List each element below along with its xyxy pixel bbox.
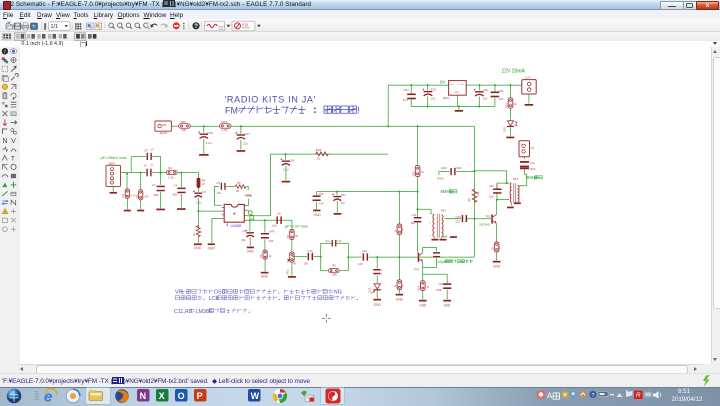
op-amp U1 LM386 [224, 205, 244, 223]
resistor R51 [510, 85, 512, 98]
svg-text:μF=25mV max: μF=25mV max [101, 155, 127, 160]
voltage regulator U2 REG [449, 81, 467, 96]
svg-text:GND: GND [261, 275, 269, 279]
svg-text:R5: R5 [259, 254, 263, 258]
ground below JP1 [528, 94, 530, 104]
ground below R13 [493, 261, 501, 263]
LED D51 [508, 121, 514, 126]
svg-text:C21: C21 [362, 249, 368, 253]
wire 9V riser [387, 85, 389, 126]
svg-text:2SC945: 2SC945 [479, 223, 490, 227]
resistor R55 [179, 124, 191, 128]
wire C9 to R7 riser [291, 220, 293, 228]
svg-text:22: 22 [317, 157, 321, 161]
node junction on varactor line [398, 256, 400, 258]
svg-text:A: A [547, 392, 553, 401]
svg-text:10v: 10v [431, 97, 436, 101]
svg-text:TR1: TR1 [414, 268, 420, 272]
svg-text:104: 104 [319, 202, 324, 206]
svg-text:C20: C20 [489, 184, 494, 188]
svg-text:LCR: LCR [209, 296, 220, 302]
svg-text:ECM: ECM [160, 131, 167, 135]
note text line2 [175, 296, 179, 300]
taskbar [0, 387, 720, 406]
svg-text:C11,R8: C11,R8 [174, 309, 192, 315]
transistor Q2 TR2 [491, 215, 493, 224]
connector JX antenna [523, 157, 525, 159]
svg-text:R54: R54 [221, 120, 227, 124]
wire LM386 pin7 bypass stub [245, 199, 248, 206]
svg-text:R1: R1 [121, 194, 125, 198]
svg-text:NG: NG [334, 290, 342, 296]
capacitor C4 [160, 173, 162, 185]
svg-text:C6: C6 [216, 181, 220, 185]
svg-text:GND: GND [194, 246, 202, 250]
svg-text:4: 4 [446, 216, 448, 218]
wire LM386 pin4 to ground [212, 219, 222, 244]
svg-text:GND: GND [396, 297, 404, 301]
svg-text:10k: 10k [332, 273, 337, 277]
ground below C56 [282, 181, 291, 183]
svg-text:104F: 104F [268, 229, 274, 233]
svg-text:C60F: C60F [455, 166, 462, 170]
ground below R12 [396, 294, 404, 296]
resistor R52 [415, 166, 420, 177]
svg-text:R9: R9 [467, 198, 471, 202]
svg-text:106: 106 [358, 262, 363, 266]
wire C23 to TR2 base [467, 218, 491, 220]
capacitor C54 [410, 85, 412, 93]
svg-text:R: R [393, 285, 397, 287]
wire 171 line to RF2 [475, 171, 507, 183]
ground below C24 [443, 300, 451, 302]
svg-text:1.5k: 1.5k [222, 128, 228, 132]
svg-text:+: + [458, 84, 460, 86]
wire ECM to R55 [171, 125, 178, 127]
wire TR1 emitter chain [423, 268, 448, 284]
svg-text:C1: C1 [143, 163, 148, 168]
wire crystal column [474, 127, 476, 258]
svg-text:L72: L72 [337, 239, 342, 243]
svg-text:C22: C22 [411, 213, 416, 217]
node junction C4 tap [160, 172, 162, 174]
wire VR1 wiper to C10 [292, 256, 307, 258]
svg-text:'RADIO KITS IN JA': 'RADIO KITS IN JA' [225, 95, 317, 105]
capacitor C9 series [276, 217, 278, 224]
svg-text:2: 2 [429, 223, 431, 225]
resistor R5 [263, 250, 267, 259]
varactor diode D1 [374, 284, 380, 289]
capacitor C56 [284, 154, 286, 160]
svg-text:?: ? [592, 393, 595, 399]
svg-text:C57: C57 [244, 132, 250, 136]
node junction R1 tap [126, 173, 128, 175]
node junction C58 tap [203, 125, 205, 127]
resistor R6 [235, 185, 246, 189]
svg-text:106: 106 [303, 262, 308, 266]
svg-text:1k: 1k [269, 254, 272, 258]
svg-text:POOL: POOL [243, 26, 251, 30]
svg-text:C7: C7 [242, 229, 246, 233]
svg-text:T: T [11, 156, 15, 163]
svg-text:0: 0 [380, 273, 382, 276]
capacitor C58 [203, 126, 205, 133]
svg-text:2.2v: 2.2v [196, 201, 202, 205]
node junction TR2 base [474, 218, 476, 220]
svg-text:222: 222 [455, 220, 460, 224]
resistor R54 [220, 124, 232, 128]
ground below R10 [419, 300, 427, 302]
svg-text:GND: GND [437, 177, 445, 181]
ground below varactor [373, 299, 381, 301]
ground below C62 [313, 210, 320, 212]
svg-text:C10: C10 [307, 249, 313, 253]
svg-text:N: N [140, 391, 147, 401]
svg-text:R: R [491, 248, 495, 250]
svg-text:R3: R3 [168, 166, 172, 170]
svg-text:GND: GND [247, 250, 255, 254]
svg-text:e: e [44, 389, 52, 406]
capacitor C3 [180, 173, 182, 188]
svg-text:100: 100 [181, 128, 186, 132]
svg-text:VR1: VR1 [286, 269, 290, 275]
ground below R1 [124, 210, 131, 212]
svg-text:C4: C4 [173, 184, 177, 188]
svg-text:C56: C56 [289, 159, 295, 163]
wire TR2 collector up [495, 200, 497, 215]
wire bias line [317, 191, 418, 193]
canvas [20, 47, 711, 364]
svg-text:D51: D51 [368, 287, 372, 292]
svg-text:R7: R7 [286, 234, 290, 238]
wire TR1 collector loop [423, 248, 437, 253]
wire LM386 pin6 to feedback riser [247, 154, 271, 216]
wire RF2 pin4 riser [518, 169, 527, 186]
wire R7 to VR1 [291, 240, 293, 252]
svg-text:C61: C61 [341, 193, 347, 197]
connector MIC JP1 [106, 165, 121, 186]
ground below LED [506, 137, 514, 139]
ground right of RF1 [442, 236, 447, 238]
wire C20 node to RF2 pin3 [497, 199, 509, 201]
capacitor C52 [479, 85, 481, 90]
ground below C3 [177, 208, 186, 210]
svg-text:C51: C51 [499, 89, 505, 93]
svg-text:22: 22 [150, 147, 155, 152]
svg-text:22u: 22u [243, 142, 248, 146]
wire feedback R53 line [271, 153, 389, 155]
capacitor C25 crystal load [433, 252, 440, 254]
resistor R1 [126, 173, 128, 189]
connector JP1 power [522, 80, 536, 94]
tank loop wires [320, 243, 322, 270]
wire to LM386 pin3 [198, 210, 222, 212]
ground cluster below RF2 [510, 203, 512, 206]
wire R11 column [398, 192, 400, 224]
node junction C52 top [479, 84, 481, 86]
svg-text:W: W [251, 391, 260, 401]
transistor Q1 TR1 [418, 253, 420, 262]
node junction C22 tap [417, 208, 419, 210]
ground below C61 [334, 213, 342, 215]
svg-text:REG: REG [443, 96, 450, 100]
svg-text:47: 47 [497, 246, 501, 249]
capacitor C24 [443, 283, 451, 285]
ground below LM386 pin4 [208, 244, 215, 246]
node junction R11 column top [398, 191, 400, 193]
ground below C4 [156, 209, 165, 211]
node junction C60 line [474, 170, 476, 172]
resistor R8 [329, 269, 340, 273]
node junction C53 [427, 84, 429, 86]
wire R3 to FB [177, 172, 198, 174]
svg-text:C2: C2 [144, 148, 149, 153]
node junction LM386 input [197, 210, 199, 212]
wire R52 column [417, 126, 419, 165]
capacitor C5 [198, 188, 200, 192]
node junction R52 top [417, 125, 419, 127]
node junction C54 [410, 84, 412, 86]
svg-text:10v: 10v [483, 97, 488, 101]
svg-text:22u: 22u [241, 238, 246, 242]
svg-text:GND: GND [444, 304, 452, 308]
svg-text:TR2: TR2 [485, 215, 491, 219]
wire C21 to varactor node [369, 256, 475, 258]
svg-text:5k: 5k [295, 234, 298, 238]
wire LM386 pin5 output [247, 219, 292, 221]
transformer RF1 [433, 215, 435, 237]
node junction rail riser [387, 125, 389, 127]
svg-text:R8: R8 [332, 264, 336, 268]
svg-text:!: ! [4, 210, 5, 215]
toolbar row 1 [0, 19, 720, 32]
node junction bias [417, 191, 419, 193]
title bar [0, 0, 720, 10]
svg-text:3: 3 [429, 236, 431, 238]
resistor R11 [397, 224, 402, 235]
wire to RF1 primary [418, 209, 431, 213]
ground below MIC [112, 187, 114, 192]
svg-text:2n6: 2n6 [272, 224, 277, 228]
resistor R7 [290, 229, 294, 239]
svg-text:1k: 1k [514, 102, 517, 106]
node junction R51 top [510, 84, 512, 86]
svg-text:X: X [159, 391, 165, 401]
svg-text:1k: 1k [192, 233, 196, 236]
capacitor C22 series [414, 217, 422, 219]
node junction tank left [320, 256, 322, 258]
svg-text:10k: 10k [144, 194, 149, 198]
svg-text:C24: C24 [438, 282, 443, 286]
svg-text:!: ! [357, 106, 360, 116]
wire C20 top stub [497, 182, 507, 184]
svg-text:R: R [393, 230, 397, 232]
resistor R53 [316, 152, 329, 156]
svg-text:R10: R10 [417, 286, 421, 291]
ground below C57 [237, 150, 246, 152]
wire C6 to R6 [226, 186, 236, 188]
capacitor C57 [240, 126, 242, 134]
svg-text:682: 682 [154, 193, 159, 197]
svg-text:LM386: LM386 [231, 224, 242, 228]
capacitor C20 [496, 193, 498, 200]
svg-text:LED: LED [503, 127, 507, 132]
svg-text:R53: R53 [316, 148, 322, 152]
svg-text:47: 47 [426, 285, 429, 289]
ground below C58 [199, 154, 209, 156]
ground below R5 [261, 272, 269, 274]
svg-text:1k: 1k [198, 230, 202, 233]
resistor R4 [196, 226, 200, 237]
svg-text:1: 1 [429, 214, 431, 216]
svg-text:GND: GND [454, 92, 459, 94]
svg-text:C4: C4 [152, 183, 156, 187]
svg-text:C31: C31 [530, 161, 535, 165]
ferrite bead FB1 [198, 173, 200, 178]
svg-text:C54: C54 [403, 88, 409, 92]
svg-text:P: P [197, 391, 203, 401]
capacitor C1 series [146, 169, 147, 177]
resistor R13 [494, 242, 499, 252]
potentiometer VR1 [290, 252, 294, 262]
svg-text:C52: C52 [483, 88, 489, 92]
capacitor C21 series [363, 253, 365, 260]
svg-text:1F: 1F [202, 182, 205, 186]
svg-text:MIC*: MIC* [108, 162, 116, 166]
microphone ECM [155, 121, 172, 131]
svg-text:16pF: 16pF [529, 167, 535, 171]
svg-text:104: 104 [403, 98, 408, 102]
svg-text:C5: C5 [202, 190, 206, 194]
capacitor C23 series [462, 215, 464, 222]
resistor R12 [397, 280, 402, 290]
svg-text:OUT: OUT [449, 84, 454, 86]
node junction R2 tap [140, 172, 142, 174]
capacitor C7 [249, 220, 251, 231]
node junction C3 tap [180, 172, 182, 174]
svg-text:GND: GND [419, 304, 427, 308]
svg-text:ER: ER [163, 123, 167, 127]
svg-text:1/1: 1/1 [51, 24, 59, 30]
ground cluster below RF1 [433, 237, 435, 239]
svg-text:22u: 22u [341, 201, 346, 205]
svg-text:+12V: +12V [524, 76, 530, 80]
svg-text:FM-: FM- [225, 106, 241, 116]
svg-text:N: N [3, 138, 8, 145]
ground below R2 [137, 210, 144, 212]
svg-text:C11: C11 [325, 239, 330, 243]
svg-text:3: 3 [507, 199, 509, 201]
svg-text:JX: JX [531, 146, 535, 150]
node junction tank right [347, 256, 349, 258]
svg-text:C58: C58 [207, 131, 213, 135]
node junction C8 tap [264, 219, 266, 221]
svg-text:GND: GND [245, 194, 251, 198]
capacitor C13 [376, 257, 378, 269]
node junction C20 bottom [496, 199, 498, 201]
svg-text:2.2u: 2.2u [206, 141, 212, 145]
node junction varactor tap [376, 256, 378, 258]
svg-text:OSC: OSC [214, 290, 226, 296]
node junction C7 tap [249, 219, 251, 221]
svg-text:222F: 222F [441, 166, 447, 170]
wire R54 to power corner [231, 125, 474, 127]
resistor R2 [140, 173, 142, 190]
svg-text:R6: R6 [237, 181, 241, 185]
wire mic output [121, 172, 146, 174]
svg-text:1k: 1k [421, 170, 424, 174]
svg-text:R2: R2 [135, 195, 139, 199]
svg-text:R52: R52 [412, 171, 416, 176]
svg-text:C9: C9 [277, 212, 281, 216]
wire C10 to tank [314, 256, 321, 258]
svg-text:1.5k: 1.5k [168, 176, 174, 180]
svg-text:C62: C62 [318, 192, 324, 196]
wire 9V rail [388, 84, 449, 86]
svg-text:V: V [11, 138, 16, 145]
svg-text:16p: 16p [489, 195, 494, 199]
resistor R10 [422, 274, 424, 281]
wire LM386 pin1 gain chain [214, 187, 221, 206]
svg-text:IN: IN [461, 84, 464, 86]
svg-text:9V: 9V [440, 80, 445, 85]
wire RF1 secondary to C23 [445, 218, 461, 220]
capacitor C10 series [308, 253, 310, 260]
node junction C61 tap [336, 191, 338, 193]
svg-text:GND: GND [208, 246, 216, 250]
svg-text:O: O [178, 391, 185, 401]
resistor R3 [166, 170, 177, 174]
wire R55 to R54 [190, 125, 219, 127]
ground below C7 [247, 247, 254, 249]
svg-text:?: ? [194, 23, 198, 30]
ground below VR1 [288, 276, 296, 278]
svg-text:VR: VR [175, 290, 183, 296]
svg-text:GND: GND [493, 265, 501, 269]
svg-text:GND: GND [314, 213, 322, 217]
svg-text:R55: R55 [180, 120, 186, 124]
menu bar [0, 10, 720, 19]
svg-text:12V 20mA: 12V 20mA [502, 69, 526, 75]
capacitor C53 [427, 85, 429, 90]
svg-text:10k: 10k [476, 191, 480, 196]
left command toolbar [0, 47, 21, 364]
wire tank to C21 [348, 256, 362, 258]
svg-text:18p: 18p [410, 221, 415, 225]
wire TR2 emitter down [495, 224, 497, 243]
svg-text:R: R [636, 392, 641, 399]
ground hook after R6 [246, 187, 248, 191]
svg-text:μF=0.2V max: μF=0.2V max [285, 224, 308, 229]
capacitor C2 bypass [131, 157, 146, 173]
command row [0, 41, 720, 48]
svg-text:RF2: RF2 [513, 177, 519, 181]
wire C1 to R3 [152, 172, 166, 174]
node junction reg gnd [458, 106, 460, 108]
wire RF1 primary top [431, 214, 434, 215]
transformer RF2 [510, 183, 511, 203]
ground below R4 [194, 244, 202, 246]
capacitor C51 [494, 85, 496, 92]
node junction RF2 pin1 [506, 182, 508, 184]
svg-text:C53: C53 [431, 88, 437, 92]
svg-text:100p: 100p [436, 288, 442, 292]
svg-text:104: 104 [216, 191, 221, 195]
svg-text:C8F: C8F [268, 239, 273, 243]
node junction C57 tap [240, 125, 242, 127]
capacitor stack C31 [520, 161, 529, 163]
wire ground rail [411, 106, 495, 108]
